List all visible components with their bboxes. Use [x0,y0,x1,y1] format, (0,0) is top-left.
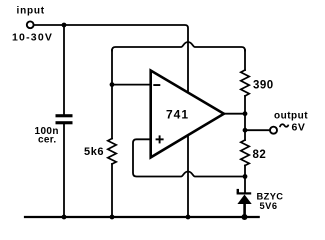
svg-text:10-30V: 10-30V [12,32,53,44]
svg-text:82: 82 [253,149,267,161]
svg-text:741: 741 [166,108,189,122]
svg-text:output: output [274,110,308,121]
svg-text:input: input [17,6,45,17]
svg-text:cer.: cer. [38,135,56,146]
svg-text:390: 390 [253,80,274,92]
svg-text:5k6: 5k6 [84,146,104,158]
svg-text:6V: 6V [292,121,306,133]
svg-text:5V6: 5V6 [260,201,278,211]
